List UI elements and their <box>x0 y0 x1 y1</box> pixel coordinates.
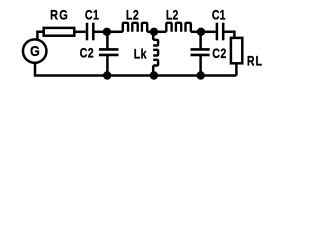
svg-text:RL: RL <box>247 53 263 69</box>
wire C1b to RL <box>224 32 234 38</box>
capacitor C2a plate 2 <box>99 54 119 57</box>
wire node B to L2b <box>154 31 166 34</box>
svg-text:G: G <box>30 42 40 59</box>
svg-text:C1: C1 <box>85 7 100 23</box>
svg-text:RG: RG <box>50 7 69 23</box>
generator G1 circle <box>23 39 47 63</box>
bottom rail wire <box>35 63 236 75</box>
inductor L2a <box>123 23 147 32</box>
capacitor C1b plate 1 <box>216 23 219 41</box>
wire node A to L2a <box>107 31 123 34</box>
svg-text:L2: L2 <box>126 7 139 23</box>
wire RL bottom to ground rail <box>235 63 238 76</box>
wire L2b to node C <box>191 31 201 34</box>
resistor RG <box>44 28 75 36</box>
svg-text:C2: C2 <box>80 45 95 61</box>
junction Lk bottom <box>150 71 158 79</box>
capacitor C1a plate 1 <box>86 23 89 41</box>
wire node A down to C2a <box>106 32 109 49</box>
resistor RL <box>231 38 242 63</box>
svg-text:C2: C2 <box>212 46 227 62</box>
wire L2a to node B <box>147 31 154 34</box>
svg-text:Lk: Lk <box>134 46 147 62</box>
svg-text:C1: C1 <box>212 7 226 23</box>
wire C2a to bottom rail <box>106 56 109 76</box>
wire node B down to Lk <box>152 32 155 40</box>
capacitor C1a plate 2 <box>92 23 95 41</box>
capacitor C1b plate 2 <box>222 23 225 41</box>
junction C2b bottom <box>197 71 205 79</box>
junction C2a bottom <box>103 71 111 79</box>
junction node B <box>150 28 158 36</box>
inductor Lk <box>153 40 158 66</box>
capacitor C2a plate 1 <box>99 48 119 51</box>
wire node C down to C2b <box>199 32 202 49</box>
capacitor C2b plate 1 <box>191 48 210 51</box>
wire generator top to RG <box>37 32 44 41</box>
wire RG to C1a <box>75 31 85 34</box>
capacitor C2b plate 2 <box>191 54 210 57</box>
junction node A <box>103 28 111 36</box>
wire Lk to bottom rail <box>152 66 155 76</box>
wire C1a to node A <box>95 31 108 34</box>
svg-text:L2: L2 <box>166 7 179 23</box>
wire node C to C1b <box>201 31 216 34</box>
wire C2b to bottom rail <box>199 56 202 76</box>
inductor L2b <box>166 23 191 32</box>
junction node C <box>197 28 205 36</box>
